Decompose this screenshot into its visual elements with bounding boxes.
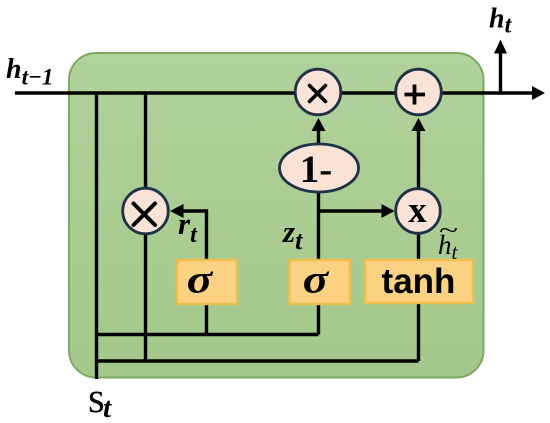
svg-text:ht−1: ht−1: [6, 54, 53, 90]
wire: vertical s(t) feed line at left: [95, 93, 98, 379]
wire: z branch to x circle: [319, 209, 384, 212]
svg-text:t: t: [103, 392, 112, 423]
wire: bottom rail 2 (to tanh): [97, 359, 419, 362]
svg-text:σ: σ: [187, 258, 214, 302]
arrowhead: right end of h line: [532, 86, 545, 100]
gate: tanh box: [365, 260, 473, 303]
wire: z gate vertical through 1- ellipse and sigma box: [317, 121, 320, 335]
glyph: plus in add circle: [405, 85, 426, 105]
op: update multiply circle: [295, 69, 341, 115]
glyph: X in update multiply: [310, 86, 326, 102]
svg-text:x: x: [408, 190, 427, 231]
glyph: X in reset multiply: [134, 204, 156, 226]
wire: vertical line into reset multiply circle: [144, 93, 147, 361]
svg-text:1-: 1-: [300, 148, 333, 191]
op: candidate multiply circle (x): [396, 189, 441, 234]
op: add circle: [396, 69, 442, 115]
arrowhead: into x circle from z branch: [382, 204, 395, 218]
op: 1- ellipse: [280, 144, 359, 192]
svg-text:ht: ht: [489, 4, 513, 39]
glyph: sigma in r gate: [187, 258, 214, 302]
op: reset multiply circle: [123, 188, 169, 234]
arrowhead: into add circle from below: [412, 118, 426, 131]
arrowhead: into reset multiply from r gate: [170, 204, 184, 218]
arrowhead: into update multiply from 1-: [312, 118, 326, 131]
wire: h(t-1) -> h(t) main horizontal line: [15, 91, 534, 94]
gate: sigma box r: [177, 260, 237, 304]
gate: sigma box z: [290, 260, 351, 304]
arrowhead: h(t) up arrow: [494, 40, 507, 54]
GRU cell body (green rounded box): [69, 53, 484, 378]
svg-text:~: ~: [439, 217, 458, 243]
svg-text:σ: σ: [303, 258, 330, 302]
label: tilde over h: [439, 217, 458, 243]
wire: candidate vertical through x circle and tanh box: [417, 121, 420, 361]
svg-text:tanh: tanh: [382, 262, 456, 301]
wire: bottom rail 1 (to sigma gates): [97, 333, 319, 336]
wire: h(t) output vertical arrow line: [499, 53, 502, 93]
wire: r gate output corner into reset multiply: [183, 211, 207, 335]
glyph: sigma in z gate: [303, 258, 330, 302]
